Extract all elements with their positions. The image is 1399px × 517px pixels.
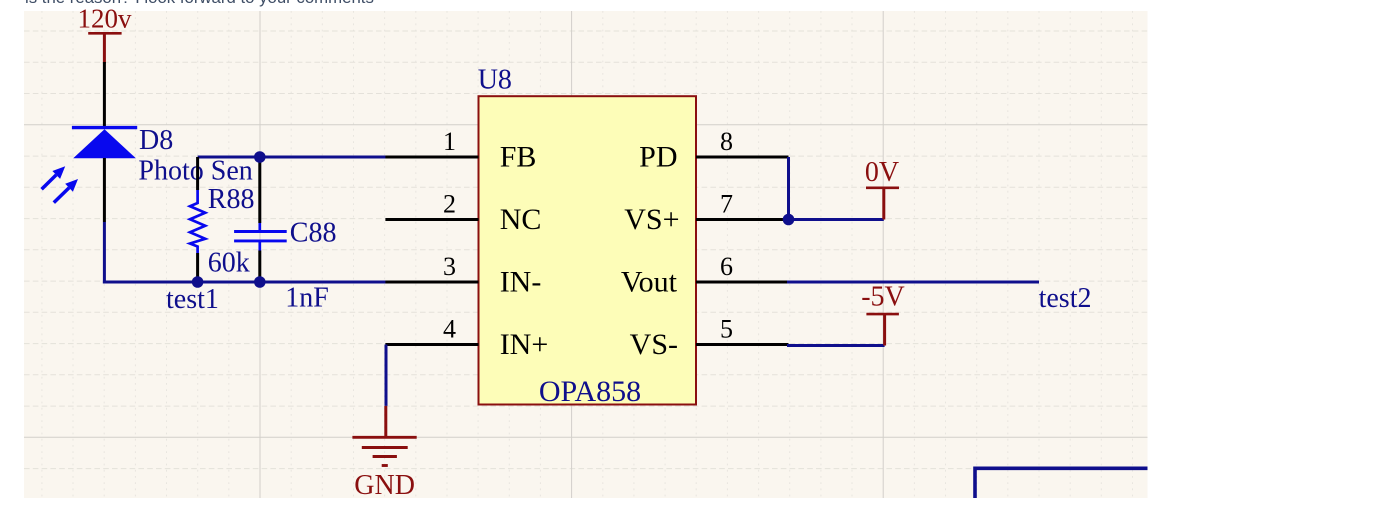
svg-text:1nF: 1nF xyxy=(285,283,329,314)
power port 0V xyxy=(865,157,899,219)
pin 2 (NC) xyxy=(385,190,541,237)
capacitor C88 xyxy=(234,157,287,282)
pin 6 (Vout) xyxy=(621,252,789,299)
pin 7 (VS+) xyxy=(624,190,788,237)
svg-text:8: 8 xyxy=(720,127,733,156)
svg-text:5: 5 xyxy=(720,315,733,344)
power port -5V xyxy=(861,282,905,346)
photodiode D8 xyxy=(42,128,138,203)
junction: bottom rail / R88 xyxy=(192,276,204,288)
wire: bottom rail test1 net xyxy=(103,281,387,284)
pin 5 (VS-) xyxy=(630,315,789,362)
junction: bottom rail / C88 xyxy=(254,276,266,288)
svg-text:1: 1 xyxy=(443,127,456,156)
wire: pin7 to 0V xyxy=(789,218,884,221)
svg-text:120v: 120v xyxy=(78,4,133,34)
svg-text:60k: 60k xyxy=(208,248,250,279)
svg-text:FB: FB xyxy=(500,141,537,174)
svg-text:R88: R88 xyxy=(208,184,255,215)
power port 120v xyxy=(78,4,133,64)
svg-text:7: 7 xyxy=(720,190,733,219)
pin 8 (PD) xyxy=(639,127,788,174)
sheet symbol corner (bottom right) xyxy=(975,467,1148,499)
svg-text:OPA858: OPA858 xyxy=(539,375,641,408)
wire: pin6 Vout to test2 xyxy=(787,281,1039,284)
resistor R88 xyxy=(190,157,205,282)
pin 1 (FB) xyxy=(385,127,536,174)
forum text fragment xyxy=(25,0,374,6)
svg-text:IN+: IN+ xyxy=(500,328,549,361)
pin 4 (IN+) xyxy=(385,315,548,362)
wire: pin8 to pin7 drop xyxy=(787,157,790,221)
wire: left vertical to bottom rail xyxy=(103,222,106,284)
ground GND xyxy=(352,406,416,501)
svg-text:-5V: -5V xyxy=(861,282,905,313)
svg-text:NC: NC xyxy=(500,203,542,236)
svg-text:VS+: VS+ xyxy=(624,203,679,236)
svg-text:0V: 0V xyxy=(865,157,899,188)
svg-text:PD: PD xyxy=(639,141,677,174)
svg-text:GND: GND xyxy=(354,470,415,501)
svg-text:VS-: VS- xyxy=(630,328,678,361)
svg-text:test1: test1 xyxy=(166,284,219,315)
svg-text:2: 2 xyxy=(443,190,456,219)
junction: top rail / C88 xyxy=(254,151,266,163)
svg-text:test2: test2 xyxy=(1039,283,1092,314)
svg-text:6: 6 xyxy=(720,252,733,281)
op-amp U1 body (U8 OPA858) xyxy=(479,96,697,404)
junction: pin7 node xyxy=(783,214,795,226)
svg-text:C88: C88 xyxy=(290,218,337,249)
wire: pin4 drop to GND xyxy=(385,345,388,406)
wire: diode top pin xyxy=(103,62,106,127)
svg-text:3: 3 xyxy=(443,252,456,281)
svg-text:IN-: IN- xyxy=(500,266,542,299)
svg-text:4: 4 xyxy=(443,315,456,344)
wire: top rail FB net xyxy=(198,156,387,159)
svg-text:Vout: Vout xyxy=(621,266,678,299)
svg-text:D8: D8 xyxy=(139,125,173,156)
pin 3 (IN-) xyxy=(385,252,541,299)
wire: diode bottom pin xyxy=(103,158,106,222)
svg-text:Photo Sen: Photo Sen xyxy=(138,156,252,187)
svg-text:U8: U8 xyxy=(478,65,512,96)
wire: pin5 to -5V xyxy=(787,344,885,347)
